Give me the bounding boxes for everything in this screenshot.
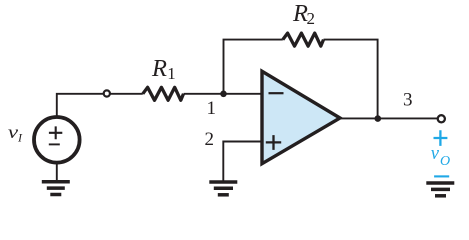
- ground (below source): [42, 182, 70, 195]
- wire: op-amp output to terminal: [341, 117, 439, 119]
- input terminal (open circle): [104, 90, 110, 96]
- wire: feedback left vertical from node 1: [224, 40, 283, 94]
- wire: source top lead and input wire to R1: [57, 94, 143, 116]
- resistor R2: [283, 33, 324, 46]
- wire: feedback right side down to output node: [324, 40, 378, 119]
- svg-text:2: 2: [205, 129, 215, 150]
- output minus sign (cyan): [434, 175, 449, 177]
- svg-text:3: 3: [403, 90, 413, 111]
- svg-text:1: 1: [167, 64, 176, 83]
- output plus sign (cyan): [434, 130, 448, 146]
- svg-text:O: O: [440, 154, 450, 169]
- svg-text:2: 2: [307, 9, 316, 28]
- svg-text:v: v: [8, 122, 18, 142]
- source minus sign: [49, 143, 60, 145]
- wire: source bottom lead: [56, 163, 58, 182]
- resistor R1: [143, 87, 184, 100]
- ground (middle, at op-amp + input): [209, 182, 237, 195]
- ground (right, at output): [426, 183, 454, 196]
- output terminal (open circle): [438, 115, 445, 122]
- voltage source vI: [34, 117, 80, 163]
- wire: R1 to op-amp inverting input: [184, 93, 261, 95]
- svg-text:1: 1: [207, 98, 217, 119]
- op-amp U1: [262, 71, 340, 163]
- source plus sign: [49, 126, 62, 139]
- op-amp plus sign: [266, 135, 281, 150]
- node 1 junction dot: [220, 91, 227, 98]
- svg-text:v: v: [431, 144, 440, 164]
- wire: non-inverting input to ground: [223, 142, 260, 182]
- svg-text:R: R: [151, 55, 167, 82]
- node 3 junction dot: [375, 115, 382, 122]
- op-amp minus sign: [269, 92, 284, 94]
